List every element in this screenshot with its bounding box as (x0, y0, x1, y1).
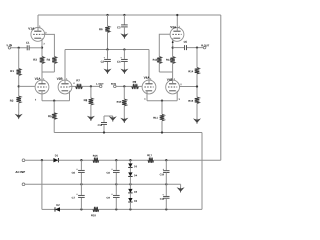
svg-text:D2: D2 (56, 203, 60, 207)
wire V2A cathode (41, 91, 43, 101)
wire neutral to D5 (129, 184, 131, 189)
svg-text:V3A: V3A (170, 25, 177, 29)
node R-IN tap (123, 85, 125, 87)
node L-OUT tap (90, 85, 92, 87)
wire right cathode rail (147, 100, 177, 102)
wire R16 to R17 (99, 159, 148, 161)
node psu bottom tap 3 (129, 208, 131, 210)
svg-text:+: + (76, 193, 78, 196)
node right cathode tap (161, 100, 163, 102)
svg-text:+: + (111, 193, 113, 196)
node psu bottom tap 1 (80, 208, 82, 210)
svg-text:3: 3 (144, 99, 146, 101)
node mid rail tap 2 (123, 48, 125, 50)
wire C8 to neutral (115, 173, 117, 184)
ground R15 (193, 118, 201, 123)
wire D3 to D4 (129, 167, 131, 172)
svg-text:R5: R5 (48, 114, 52, 118)
wire V4B grid (179, 86, 197, 88)
node psu top tap 1 (80, 159, 82, 161)
triode V4A (142, 80, 156, 94)
wire B+ riser right edge (220, 15, 222, 160)
svg-text:+: + (76, 168, 78, 171)
ground C3 (120, 33, 128, 38)
diode D6 (128, 198, 132, 202)
wire rail to C3 (123, 15, 125, 24)
node V2A grid tap (18, 85, 20, 87)
svg-text:R12: R12 (153, 58, 158, 62)
capacitor C11 (163, 195, 169, 197)
svg-text:2: 2 (73, 83, 75, 85)
node neutral tap 1 (80, 183, 82, 185)
svg-text:V2B: V2B (57, 77, 64, 81)
wire C4 to ground (123, 62, 125, 69)
resistor R10 grid leak (122, 99, 127, 106)
wire left cathode rail (42, 100, 70, 102)
wire neutral to C11 (165, 184, 167, 196)
resistor R9 series (132, 84, 139, 89)
svg-text:R1: R1 (10, 69, 14, 73)
node bias bus junction (161, 131, 163, 133)
wire L-IN tap down (18, 48, 20, 69)
node AC hot tap (41, 159, 43, 161)
svg-text:R11: R11 (153, 116, 158, 120)
svg-text:R10: R10 (117, 100, 122, 104)
triode V2B (58, 80, 72, 94)
wire R11 to bias bus (161, 121, 163, 133)
node neutral tap 3 (129, 183, 131, 185)
resistor R2 (16, 96, 21, 103)
svg-text:D3: D3 (134, 165, 138, 168)
wire R5 to bias bus (53, 119, 55, 132)
node top rail tap 2 (123, 14, 125, 16)
wire rail to C10 (165, 160, 167, 170)
wire V4B cathode (176, 91, 178, 101)
wire R6 to mid rail (107, 33, 109, 50)
wire bias bus (54, 132, 202, 134)
svg-text:R13: R13 (166, 58, 171, 62)
resistor R5 cathode left (52, 113, 57, 120)
svg-text:C9: C9 (106, 196, 110, 200)
ground R8 (87, 116, 95, 121)
wire cathode tap down (53, 101, 55, 113)
connector J4 R-OUT (203, 46, 206, 49)
node R-OUT tap (196, 46, 198, 48)
svg-text:C1: C1 (26, 41, 30, 45)
wire bus cap top (103, 116, 105, 122)
wire R1 to R2 (18, 76, 20, 97)
capacitor C5 output coupling (184, 45, 186, 50)
diode D1 (53, 158, 58, 162)
connector J1 L-IN (8, 47, 11, 50)
capacitor C4 decoupling (121, 58, 128, 60)
ground C4 (120, 69, 128, 74)
svg-text:R2: R2 (10, 99, 14, 103)
svg-text:V1A: V1A (28, 27, 35, 31)
wire R12 top riser (159, 34, 170, 56)
svg-text:R7: R7 (76, 78, 80, 82)
capacitor C10 (163, 170, 169, 172)
wire top B+ rail (38, 14, 221, 16)
svg-text:C2: C2 (101, 60, 105, 64)
svg-text:3: 3 (179, 99, 181, 101)
wire mid rail to C2 (107, 50, 109, 59)
wire D4 to neutral (129, 176, 131, 184)
resistor R1 (16, 69, 21, 76)
wire R18 to riser (99, 208, 202, 210)
resistor R13 (170, 57, 175, 64)
node bus cap junction (103, 131, 105, 133)
wire rail to D3 (129, 160, 131, 163)
capacitor C1 input coupling (26, 45, 28, 50)
ground input divider (15, 114, 23, 119)
wire R-IN tap down (123, 86, 125, 99)
wire V2B grid out (70, 85, 76, 87)
resistor R8 load (89, 98, 94, 105)
svg-text:C8: C8 (106, 171, 110, 175)
connector J5 AC hot (22, 159, 25, 162)
wire C7 to bottom rail (80, 198, 82, 210)
wire rail to C8 (115, 160, 117, 170)
svg-text:D1: D1 (55, 153, 59, 157)
ground C2 (104, 69, 112, 74)
wire R7 to L-OUT (82, 85, 99, 87)
svg-text:R IN: R IN (111, 83, 116, 86)
wire mid rail to C4 (123, 50, 125, 59)
svg-text:R8: R8 (84, 98, 88, 102)
svg-text:C12: C12 (98, 124, 103, 127)
ground PSU (177, 187, 185, 192)
wire rail to C6 (80, 160, 82, 170)
svg-text:R6: R6 (99, 27, 103, 31)
wire R15 to ground (196, 104, 198, 119)
node psu top tap 3 (129, 159, 131, 161)
svg-text:C5: C5 (184, 40, 188, 44)
svg-text:C11: C11 (160, 198, 165, 201)
svg-text:R17: R17 (147, 153, 152, 157)
wire AC hot corner to D2 (42, 208, 55, 210)
node V3A cathode junction (172, 46, 174, 48)
wire C2 to ground (107, 62, 109, 69)
wire mid B+ rail (65, 49, 149, 51)
resistor R14 (195, 68, 200, 75)
wire cathode to C5 (173, 47, 184, 49)
wire C5 to R-OUT (187, 47, 203, 49)
wire R10 to ground (123, 106, 125, 118)
wire rail to R6 (107, 15, 109, 26)
svg-text:2: 2 (180, 84, 182, 86)
diode D2 (55, 207, 60, 211)
node V3A plate tap (176, 14, 178, 16)
resistor R6 dropper (105, 26, 110, 33)
svg-text:C3: C3 (117, 25, 121, 29)
wire bus cap to ground arm (104, 115, 113, 117)
svg-text:C7: C7 (72, 196, 76, 200)
svg-text:D6: D6 (134, 200, 138, 203)
svg-text:C6: C6 (72, 171, 76, 175)
wire R12 bottom jog (158, 64, 160, 73)
svg-text:C10: C10 (160, 173, 165, 176)
svg-text:D4: D4 (134, 174, 138, 177)
wire bus cap bottom (103, 125, 105, 133)
node psu bottom tap 4 (165, 208, 167, 210)
node neutral tap 4 (165, 183, 167, 185)
connector J3 R-IN (114, 85, 117, 88)
triode V4B (166, 80, 180, 94)
wire right cathode tap down (161, 101, 163, 115)
svg-text:+: + (111, 168, 113, 171)
node top rail tap 1 (106, 14, 108, 16)
capacitor C6 (78, 169, 85, 171)
resistor R4 (52, 57, 57, 64)
wire V1A cathode down (41, 38, 43, 56)
wire V2A plate (41, 72, 43, 84)
wire V3A plate to rail (176, 15, 178, 31)
wire jog horizontal (42, 71, 54, 73)
wire C10 to neutral (165, 173, 167, 185)
capacitor C9 (113, 194, 120, 196)
wire R14 to grid node (196, 74, 198, 97)
wire R13 top riser (172, 48, 174, 57)
svg-text:R16: R16 (93, 154, 98, 158)
wire V1A plate to rail (37, 15, 39, 31)
wire D6 to bottom rail (129, 202, 131, 209)
capacitor C7 (78, 194, 85, 196)
wire neutral to C9 (115, 184, 117, 195)
wire C9 to bottom rail (115, 198, 117, 210)
wire C1 to V1A cathode node (30, 47, 42, 49)
wire R9 to V4A grid (139, 85, 143, 87)
wire V4A plate riser (148, 50, 150, 84)
wire bias bus riser (201, 133, 203, 210)
diode D4 (128, 172, 132, 176)
node V4B grid node (196, 85, 198, 87)
wire V3A cathode down (172, 38, 174, 47)
wire AC neutral bus (25, 183, 181, 185)
wire V4A cathode (146, 91, 148, 101)
node neutral tap 2 (115, 183, 117, 185)
capacitor C3 rail bypass (121, 24, 128, 26)
wire R2 to ground (18, 103, 20, 114)
wire neutral to ground (180, 184, 182, 187)
ground R10 (120, 118, 128, 123)
svg-text:R4: R4 (47, 58, 51, 62)
wire C6 to neutral (80, 173, 82, 184)
wire AC hot down (41, 160, 43, 209)
node psu top tap 4 (165, 159, 167, 161)
node psu top tap 2 (115, 159, 117, 161)
wire input to cap C1 (11, 47, 27, 49)
svg-text:3: 3 (43, 43, 45, 45)
node L-IN tap (18, 47, 20, 49)
svg-text:R OUT: R OUT (201, 43, 209, 47)
svg-text:C4: C4 (117, 60, 121, 64)
wire to V2A grid (19, 85, 36, 87)
wire V1A grid to node B (42, 34, 54, 56)
resistor R3 (40, 57, 45, 64)
triode V3A (170, 28, 184, 42)
wire neutral to C7 (80, 184, 82, 195)
wire R4 bottom jog (53, 64, 55, 73)
resistor R17 filter (148, 158, 154, 163)
diode D5 (128, 189, 132, 193)
pin 3 V3A cathode (172, 41, 174, 43)
node psu bottom tap 2 (115, 208, 117, 210)
wire L-OUT tap down (90, 86, 92, 98)
wire D1 to R16 (58, 159, 93, 161)
wire R17 to B+ riser (154, 159, 221, 161)
node mid rail tap 1 (106, 48, 108, 50)
wire R3 bottom jog (41, 64, 43, 73)
capacitor C8 (113, 169, 120, 171)
diode D3 (128, 163, 132, 167)
connector J6 AC neutral (22, 183, 25, 186)
node input junction (41, 46, 43, 48)
resistor R15 (195, 97, 200, 104)
resistor R16 filter (93, 158, 99, 163)
connector J2 L-OUT (99, 85, 102, 88)
svg-text:R9: R9 (133, 80, 137, 84)
capacitor C12 bus bypass (101, 122, 107, 124)
svg-text:3: 3 (35, 99, 37, 101)
svg-text:R3: R3 (33, 58, 37, 62)
wire D5 to D6 (129, 193, 131, 198)
wire R-OUT tap down (196, 48, 198, 68)
svg-text:R15: R15 (188, 99, 193, 103)
wire C3 to ground (123, 27, 125, 34)
wire R8 to ground (90, 105, 92, 116)
svg-text:AC INP: AC INP (15, 170, 25, 174)
triode V1A (31, 28, 45, 42)
triode V2A (35, 80, 49, 94)
capacitor C2 decoupling (104, 58, 111, 60)
svg-text:D5: D5 (134, 191, 138, 194)
svg-text:L OUT: L OUT (96, 83, 104, 86)
wire right jog horizontal (159, 71, 172, 73)
node left cathode tap (53, 100, 55, 102)
svg-text:R18: R18 (91, 213, 96, 217)
svg-text:R14: R14 (188, 69, 193, 73)
wire R13 bottom jog (172, 64, 174, 73)
resistor R11 cathode right (160, 114, 165, 121)
resistor R12 (157, 57, 162, 64)
resistor R7 series (76, 84, 83, 89)
ground bus bypass (109, 116, 117, 121)
wire R-IN to R9 (116, 85, 132, 87)
resistor R18 filter (93, 207, 99, 212)
wire C11 to bottom rail (165, 198, 167, 209)
wire V4B plate (172, 72, 174, 84)
wire V2B cathode (69, 91, 71, 101)
svg-text:V2A: V2A (35, 77, 42, 81)
wire D2 to R18 (60, 208, 93, 210)
wire AC hot to D1 (25, 159, 54, 161)
wire V2B plate riser (64, 50, 66, 84)
